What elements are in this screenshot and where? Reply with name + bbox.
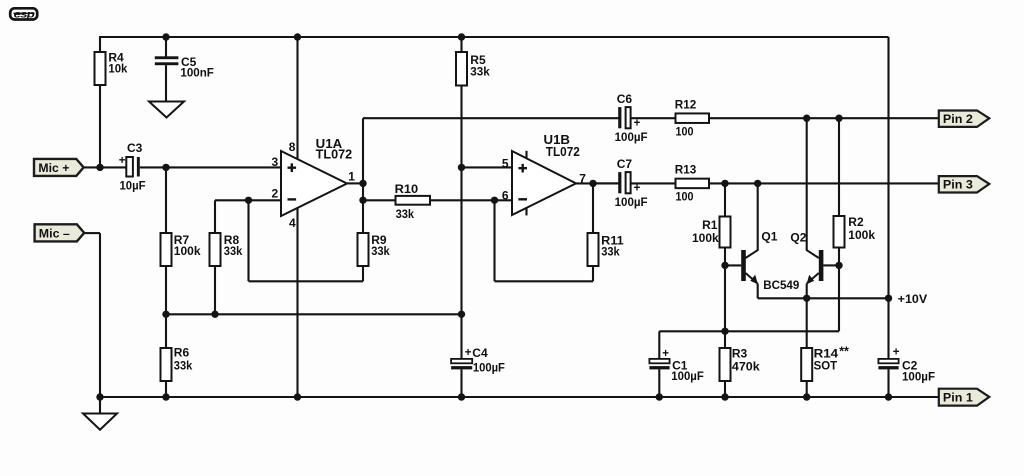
- svg-text:+10V: +10V: [898, 292, 928, 306]
- pin 2 label: [272, 186, 279, 200]
- svg-text:4: 4: [289, 216, 296, 230]
- node top rail / C5: [162, 33, 169, 40]
- wire top supply rail: [99, 36, 889, 38]
- label 100k (R2): [848, 228, 875, 242]
- wire R2 top lead: [838, 118, 840, 216]
- label C3 plus: [119, 155, 126, 167]
- wire U1A output up to Pin2 line: [362, 118, 364, 183]
- label R6: [174, 345, 190, 359]
- svg-text:C6: C6: [617, 92, 633, 106]
- label C2 plus: [893, 346, 900, 358]
- wire R10 to U1B pin6: [430, 199, 512, 201]
- pin 7 label: [579, 171, 586, 185]
- wire R2 to base node: [838, 248, 840, 266]
- svg-text:1: 1: [348, 169, 355, 183]
- svg-text:SOT: SOT: [814, 359, 838, 373]
- wire bias line: [659, 330, 839, 332]
- capacitor C2: [878, 359, 898, 370]
- wire U1B +input line: [462, 166, 513, 168]
- svg-text:8: 8: [289, 140, 296, 154]
- wire R12 to Pin2 flag: [709, 117, 939, 119]
- wire R1 top lead: [724, 183, 726, 216]
- ground (C5): [149, 102, 184, 118]
- node C2 / ground rail: [885, 393, 892, 400]
- svg-text:100µF: 100µF: [615, 130, 648, 144]
- svg-text:100k: 100k: [848, 228, 875, 242]
- capacitor C6: [618, 107, 630, 128]
- resistor R6: [161, 348, 172, 381]
- svg-text:33k: 33k: [224, 244, 243, 258]
- wire R3 bottom lead: [724, 381, 726, 397]
- wire R3 top lead: [724, 331, 726, 348]
- node R6 / ground rail: [162, 393, 169, 400]
- svg-text:Pin 2: Pin 2: [943, 112, 973, 126]
- label 100k (R7): [174, 244, 201, 258]
- wire feedback U1A down: [247, 200, 249, 281]
- node R2 / Pin2 line: [835, 115, 842, 122]
- capacitor C5: [155, 56, 179, 65]
- wire U1B top power stub: [525, 151, 527, 159]
- resistor R7: [161, 233, 172, 266]
- label C3: [127, 141, 143, 155]
- node Mic+ / R4: [96, 164, 103, 171]
- node R5 / top rail: [458, 33, 465, 40]
- label R8: [224, 233, 240, 247]
- label 100nF: [180, 66, 214, 80]
- label C6 plus: [634, 118, 641, 130]
- wire U1A pin8 supply: [296, 37, 298, 160]
- node pin4 / ground rail: [294, 393, 301, 400]
- wire R14 top lead: [806, 298, 808, 348]
- label 100uF (C7): [615, 195, 648, 209]
- wire C7 to R13: [631, 182, 676, 184]
- label Q2: [790, 230, 806, 244]
- node R3 / ground rail: [721, 393, 728, 400]
- svg-text:6: 6: [502, 189, 509, 203]
- svg-text:100µF: 100µF: [473, 361, 505, 375]
- svg-text:C4: C4: [472, 346, 488, 360]
- wire R6 top lead: [165, 314, 167, 348]
- label C1: [672, 359, 688, 373]
- label C4: [472, 346, 488, 360]
- wire ground stub: [99, 397, 101, 414]
- label SOT: [814, 359, 838, 373]
- svg-text:+: +: [893, 346, 900, 358]
- label 33k (R6): [174, 359, 193, 373]
- resistor R13: [676, 179, 710, 189]
- node R5-net / gnd-net: [458, 311, 465, 318]
- svg-text:TL072: TL072: [316, 148, 353, 162]
- wire Q2 collector up: [806, 118, 808, 250]
- wire Q2 base lead: [823, 264, 839, 266]
- node Q1 collector / Pin3 line: [754, 180, 761, 187]
- wire Pin3 line left: [593, 182, 619, 184]
- wire R14 bottom lead: [806, 381, 808, 397]
- wire Q1 base lead: [725, 264, 741, 266]
- label R11: [601, 233, 624, 247]
- wire R11 top lead: [592, 183, 594, 233]
- label R9: [371, 233, 387, 247]
- ground (bottom left): [83, 414, 117, 430]
- wire Mic- down to ground rail: [99, 233, 101, 397]
- svg-text:+: +: [662, 348, 669, 360]
- resistor R1: [720, 217, 731, 248]
- ESP logo: [10, 8, 37, 20]
- label 10uF: [120, 178, 146, 192]
- node U1A output: [359, 180, 366, 187]
- label R1: [702, 218, 718, 232]
- svg-text:470k: 470k: [732, 360, 760, 374]
- wire Q1 collector up: [757, 183, 759, 250]
- wire R11 bottom lead: [592, 266, 594, 281]
- label TL072 (U1B): [546, 145, 580, 159]
- wire R1 to base node: [724, 248, 726, 266]
- svg-text:Pin 1: Pin 1: [943, 391, 973, 405]
- label R3: [732, 347, 748, 361]
- wire C4 bottom lead: [460, 369, 462, 397]
- wire feedback U1A horizontal: [249, 280, 364, 282]
- label 100uF (C1): [671, 369, 704, 383]
- resistor R8: [210, 233, 221, 266]
- op-amp U1A: [281, 151, 347, 216]
- node C1 / ground rail: [656, 393, 663, 400]
- wire R4 bottom lead: [99, 85, 101, 167]
- wire Q2 base down to bias line: [838, 265, 840, 331]
- Mic + flag: [34, 159, 84, 176]
- label C2: [902, 359, 918, 373]
- label 33k (R8): [224, 244, 243, 258]
- label R7: [174, 233, 190, 247]
- wire node bias down from Q1 base: [724, 265, 726, 331]
- node Q2 base / R2: [835, 262, 842, 269]
- wire ground rail: [100, 396, 939, 398]
- svg-text:C3: C3: [127, 141, 143, 155]
- label C4 plus: [465, 347, 472, 359]
- capacitor C3: [126, 157, 139, 177]
- label 100 (R13): [676, 189, 694, 203]
- wire C5 bottom lead: [165, 65, 167, 102]
- svg-text:R10: R10: [395, 182, 419, 196]
- svg-text:100k: 100k: [692, 231, 719, 245]
- svg-text:33k: 33k: [174, 359, 193, 373]
- wire R13 to Pin3 flag: [709, 182, 939, 184]
- svg-text:+: +: [119, 155, 126, 167]
- label R5: [470, 53, 486, 67]
- wire feedback U1B horizontal: [495, 280, 594, 282]
- resistor R11: [588, 233, 599, 266]
- pin 4 label: [289, 216, 296, 230]
- svg-text:100: 100: [676, 124, 694, 138]
- wire R4 top lead: [99, 37, 101, 52]
- wire R6 bottom lead: [165, 381, 167, 397]
- node Q1 base / R1: [721, 262, 728, 269]
- label R14 stars: [839, 345, 849, 359]
- label TL072 (U1A): [316, 148, 353, 162]
- label U1A: [316, 137, 343, 151]
- svg-text:100: 100: [676, 189, 694, 203]
- label 100 (R12): [676, 124, 694, 138]
- svg-text:3: 3: [272, 155, 279, 169]
- label R14: [814, 347, 839, 361]
- pin 6 label: [502, 189, 509, 203]
- pin 1 label: [348, 169, 355, 183]
- wire R8 bottom lead: [214, 266, 216, 314]
- label C1 plus: [662, 348, 669, 360]
- resistor R14: [801, 348, 812, 381]
- wire C5 top lead: [165, 37, 167, 57]
- svg-text:2: 2: [272, 186, 279, 200]
- svg-text:33k: 33k: [470, 65, 490, 79]
- node C3 / R7: [162, 164, 169, 171]
- node R5-net / U1B pin5: [458, 164, 465, 171]
- svg-text:**: **: [839, 345, 849, 359]
- svg-text:R12: R12: [675, 98, 697, 112]
- node output / R9 / R10: [359, 197, 366, 204]
- wire output down to R9: [362, 183, 364, 233]
- svg-text:Mic –: Mic –: [39, 226, 70, 240]
- svg-text:esp: esp: [14, 8, 36, 20]
- node R1 / Pin3 line: [721, 180, 728, 187]
- svg-text:33k: 33k: [601, 245, 620, 259]
- label R10: [395, 182, 419, 196]
- node +10V rail: [885, 295, 892, 302]
- transistor Q2: [806, 250, 823, 284]
- capacitor C1: [649, 359, 669, 370]
- transistor Q1: [741, 250, 758, 284]
- svg-text:Mic +: Mic +: [38, 161, 69, 175]
- node feedback U1A: [245, 197, 252, 204]
- label 100uF (C6): [615, 130, 648, 144]
- label +10V: [898, 292, 928, 306]
- wire R9 bottom lead: [362, 266, 364, 281]
- Pin 1 flag: [939, 389, 990, 406]
- wire C3 to U1A pin3: [140, 166, 281, 168]
- svg-text:10k: 10k: [108, 61, 127, 75]
- label 33k (R11): [601, 245, 620, 259]
- label 470k: [732, 360, 760, 374]
- resistor R4: [95, 52, 106, 85]
- svg-text:Q1: Q1: [761, 229, 777, 243]
- wire emitter rail: [758, 297, 889, 299]
- svg-text:10µF: 10µF: [120, 178, 146, 192]
- node R3 / bias line: [721, 328, 728, 335]
- label C6: [617, 92, 633, 106]
- Pin 2 flag: [939, 111, 990, 127]
- label 33k (R5): [470, 65, 490, 79]
- op-amp U1B: [512, 151, 576, 215]
- wire Q2 emitter down: [806, 284, 808, 299]
- label 100k (R1): [692, 231, 719, 245]
- svg-text:100µF: 100µF: [671, 369, 704, 383]
- node R8 / gnd-net: [211, 311, 218, 318]
- capacitor C7: [618, 172, 630, 193]
- wire Pin2 line left: [363, 117, 619, 119]
- wire U1A output: [347, 182, 363, 184]
- node emitters / R14: [803, 295, 810, 302]
- wire R7 bottom lead: [165, 266, 167, 314]
- svg-text:R13: R13: [675, 163, 697, 177]
- wire R7 top lead: [165, 167, 167, 233]
- svg-text:100µF: 100µF: [615, 195, 648, 209]
- wire Q1 emitter down: [757, 284, 759, 299]
- wire U1B bottom power stub: [525, 208, 527, 216]
- svg-text:+: +: [634, 118, 641, 130]
- svg-text:33k: 33k: [396, 207, 415, 221]
- svg-text:5: 5: [502, 156, 509, 170]
- label R2: [848, 215, 864, 229]
- wire U1A pin4 down: [296, 208, 298, 397]
- label 33k (R10): [396, 207, 415, 221]
- capacitor C4: [451, 359, 472, 370]
- svg-text:100µF: 100µF: [902, 369, 935, 383]
- wire C1 top lead: [658, 331, 660, 359]
- label Q1: [761, 229, 777, 243]
- label 10k: [108, 61, 127, 75]
- label R12: [675, 98, 697, 112]
- label U1B: [544, 133, 571, 147]
- label C7 plus: [634, 183, 641, 195]
- wire Mic+ to C3: [84, 166, 128, 168]
- label 100uF (C4): [473, 361, 505, 375]
- resistor R10: [396, 196, 431, 205]
- wire U1A -input line: [215, 199, 281, 201]
- wire U1B output: [576, 182, 619, 184]
- resistor R12: [676, 113, 710, 123]
- node U1B output / R11: [589, 180, 596, 187]
- label C7: [617, 157, 633, 171]
- node C4 / ground rail: [458, 393, 465, 400]
- resistor R5: [456, 52, 467, 86]
- svg-text:R6: R6: [174, 345, 190, 359]
- wire C6 to R12: [631, 117, 676, 119]
- svg-text:100nF: 100nF: [180, 66, 214, 80]
- node pin8 / top rail: [294, 33, 301, 40]
- node Q2 collector / Pin2 line: [803, 115, 810, 122]
- node R14 / ground rail: [803, 393, 810, 400]
- svg-text:Q2: Q2: [790, 230, 806, 244]
- node R7 / R6 / net: [162, 311, 169, 318]
- Pin 3 flag: [939, 176, 990, 192]
- resistor R9: [358, 233, 369, 266]
- node feedback U1B: [491, 197, 498, 204]
- wire C2 bottom lead: [887, 369, 889, 397]
- pin 5 label: [502, 156, 509, 170]
- pin 8 label: [289, 140, 296, 154]
- svg-text:TL072: TL072: [546, 145, 580, 159]
- wire Mic- stub: [84, 232, 100, 234]
- svg-text:33k: 33k: [371, 244, 390, 258]
- wire C1 bottom lead: [658, 369, 660, 397]
- svg-text:+: +: [465, 347, 472, 359]
- node ground rail left: [96, 393, 103, 400]
- svg-text:C7: C7: [617, 157, 633, 171]
- label C5: [181, 55, 197, 69]
- label 33k (R9): [371, 244, 390, 258]
- svg-text:Pin 3: Pin 3: [943, 178, 973, 192]
- label BC549: [763, 278, 799, 292]
- pin 3 label: [272, 155, 279, 169]
- wire R5 down to C4: [460, 86, 462, 360]
- wire R8 top lead: [214, 200, 216, 233]
- wire feedback U1B down: [493, 200, 495, 281]
- wire output to R10: [363, 199, 396, 201]
- svg-text:BC549: BC549: [763, 278, 799, 292]
- label 100uF (C2): [902, 369, 935, 383]
- wire right rail vertical: [887, 37, 889, 359]
- svg-text:100k: 100k: [174, 244, 201, 258]
- Mic - flag: [35, 224, 85, 241]
- label R4: [108, 51, 124, 65]
- label R13: [675, 163, 697, 177]
- resistor R2: [834, 216, 845, 248]
- wire gnd-net horizontal: [166, 313, 462, 315]
- wire R5 top lead: [460, 37, 462, 52]
- resistor R3: [720, 348, 731, 381]
